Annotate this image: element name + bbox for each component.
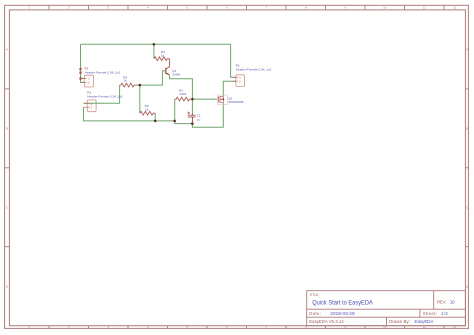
wire Q1 emitter to gate node bbox=[169, 75, 192, 99]
wire P3 pin2 to bottom rail bbox=[84, 107, 193, 123]
svg-text:Sheet:: Sheet: bbox=[423, 311, 437, 316]
resistor R4 bbox=[154, 57, 169, 61]
wire C1 bottom lead to Q2 drain bbox=[192, 102, 223, 127]
capacitor C1 bbox=[188, 115, 196, 117]
capacitor C1 polarity mark bbox=[187, 112, 190, 115]
mosfet Q2 bulk stub bbox=[220, 98, 223, 100]
resistor R1 bbox=[175, 97, 193, 101]
wire R4 tap from top rail bbox=[153, 44, 155, 58]
header P1 pin stubs bbox=[232, 77, 238, 81]
wire gate node to Q2 gate bbox=[192, 98, 217, 100]
svg-text:A: A bbox=[466, 48, 468, 52]
frame column ticks bottom bbox=[49, 326, 444, 329]
svg-text:10: 10 bbox=[383, 6, 387, 10]
junction gate node bbox=[191, 98, 194, 101]
header P3 pin stubs bbox=[84, 103, 90, 107]
svg-text:1k: 1k bbox=[161, 53, 165, 57]
capacitor C1 top pin bbox=[191, 114, 193, 116]
svg-text:Header-Female-2.54_1x2: Header-Female-2.54_1x2 bbox=[236, 68, 272, 72]
svg-text:100k: 100k bbox=[179, 92, 187, 96]
wire Q2 source to P1 pin2 bbox=[223, 81, 236, 96]
frame column numbers top bbox=[28, 6, 456, 10]
wire C1 top lead bbox=[191, 99, 193, 115]
svg-text:2N3904: 2N3904 bbox=[172, 72, 180, 76]
svg-text:TITLE:: TITLE: bbox=[309, 293, 319, 297]
resistor R3 bbox=[120, 83, 137, 87]
mosfet Q2 source stub bbox=[220, 95, 223, 97]
frame column numbers bottom bbox=[28, 325, 456, 329]
svg-text:B: B bbox=[6, 127, 8, 131]
mosfet Q2 channel bar bbox=[219, 96, 221, 103]
svg-text:11: 11 bbox=[423, 6, 426, 10]
wire R3 junction to Q1 base bbox=[140, 71, 165, 85]
svg-text:IRF9530NPBF: IRF9530NPBF bbox=[228, 100, 244, 104]
svg-text:REV:: REV: bbox=[437, 300, 446, 305]
wire R3 junction down to R2 bbox=[139, 85, 141, 113]
transistor Q1 collector bbox=[166, 67, 170, 69]
wire P2 pin1 stub bbox=[81, 78, 85, 80]
junction top rail R4 tap bbox=[153, 43, 156, 46]
wire R4 to Q1 collector bbox=[168, 59, 170, 67]
mosfet Q2 body outline bbox=[217, 95, 227, 105]
header P1 body bbox=[236, 75, 245, 87]
svg-text:1k: 1k bbox=[145, 107, 149, 111]
svg-text:2018-03-29: 2018-03-29 bbox=[330, 311, 355, 316]
header P3 body bbox=[87, 100, 96, 112]
wire top rail to P1 pin1 bbox=[231, 44, 236, 77]
svg-text:A: A bbox=[6, 48, 8, 52]
mosfet Q2 bulk junction dot bbox=[222, 98, 224, 100]
svg-text:Header-Female-2.54_1x2: Header-Female-2.54_1x2 bbox=[87, 94, 123, 98]
wire left vertical to P2 bbox=[81, 44, 85, 82]
header P2 pin stubs bbox=[81, 79, 87, 83]
svg-text:1k: 1k bbox=[123, 79, 127, 83]
svg-text:Drawn By:: Drawn By: bbox=[389, 319, 410, 324]
frame row ticks right bbox=[465, 89, 468, 247]
mosfet Q2 conductor bbox=[222, 96, 224, 102]
junction R2 bottom bbox=[154, 120, 157, 123]
svg-text:1u: 1u bbox=[197, 117, 201, 121]
header P2 body bbox=[84, 75, 93, 87]
svg-text:Date:: Date: bbox=[309, 311, 321, 316]
svg-text:EasyEDA V5.3.14: EasyEDA V5.3.14 bbox=[309, 319, 344, 324]
mosfet Q2 bulk arrow bbox=[220, 99, 222, 100]
mosfet Q2 drain stub bbox=[220, 101, 223, 103]
svg-text:EasyEDA: EasyEDA bbox=[415, 319, 434, 324]
wire top rail bbox=[81, 43, 231, 45]
frame column ticks top bbox=[49, 5, 444, 10]
mosfet Q2 gate bar bbox=[217, 96, 219, 102]
resistor R2 bbox=[140, 111, 155, 115]
wire R1 left lead down bbox=[174, 99, 176, 121]
junction C1 bottom bbox=[191, 122, 194, 125]
transistor Q1 emitter arrow bbox=[167, 73, 170, 75]
capacitor C1 bottom pin bbox=[191, 117, 193, 124]
title block outline bbox=[307, 291, 466, 326]
frame row letters left bbox=[6, 48, 9, 289]
transistor Q1 base bar bbox=[165, 68, 167, 74]
svg-text:1/2: 1/2 bbox=[441, 311, 449, 316]
svg-text:B: B bbox=[466, 127, 468, 131]
frame row letters right bbox=[466, 48, 469, 289]
wire P3 pin1 to R3 bbox=[84, 85, 120, 103]
header P2 unconnected pin markers bbox=[79, 68, 81, 80]
junction R1 bottom bbox=[173, 120, 176, 123]
svg-text:Header-Female-2.54_1x2: Header-Female-2.54_1x2 bbox=[85, 70, 121, 74]
wire R3 to junction bbox=[136, 84, 140, 86]
wire R2 right lead down to ground rail bbox=[154, 113, 156, 121]
junction R3 right bbox=[139, 84, 142, 87]
svg-text:12: 12 bbox=[453, 6, 457, 10]
svg-text:Quick Start to EasyEDA: Quick Start to EasyEDA bbox=[312, 300, 373, 307]
svg-text:1.0: 1.0 bbox=[450, 300, 455, 305]
transistor Q1 emitter bbox=[166, 73, 170, 75]
frame row ticks left bbox=[5, 89, 10, 247]
